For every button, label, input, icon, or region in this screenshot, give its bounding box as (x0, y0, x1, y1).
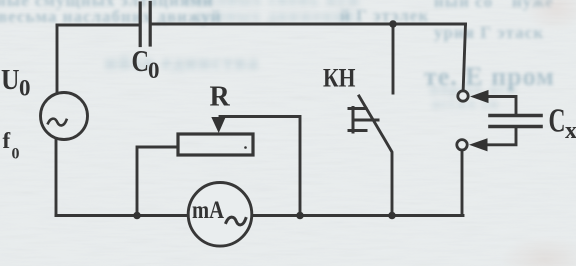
svg-text:0: 0 (19, 76, 31, 101)
svg-text:0: 0 (12, 146, 20, 163)
svg-text:C: C (549, 103, 566, 140)
svg-text:U: U (1, 65, 20, 96)
svg-text:x: x (565, 118, 576, 144)
svg-text:C: C (132, 43, 150, 78)
svg-text:0: 0 (148, 58, 160, 83)
svg-text:R: R (210, 82, 231, 113)
svg-text:КН: КН (323, 64, 356, 93)
svg-text:mA: mA (192, 197, 224, 224)
svg-text:f: f (3, 128, 11, 153)
